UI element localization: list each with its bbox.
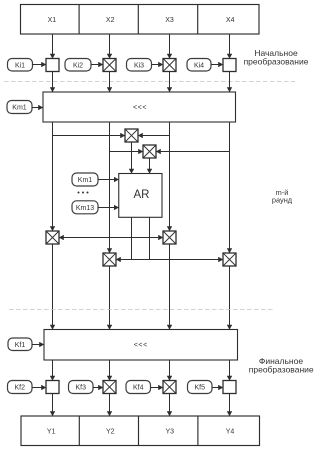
xor B [163, 231, 176, 244]
xor U2 [143, 145, 156, 158]
key Kf1 (final rotate) [8, 338, 32, 351]
key Km1 (round rotate) [7, 101, 32, 114]
key Ki3 [127, 59, 152, 72]
key Ki4 [187, 59, 211, 72]
wire Ki1 to S1 [33, 64, 47, 66]
svg-text:Kf1: Kf1 [15, 342, 26, 349]
svg-text:Kf3: Kf3 [75, 385, 86, 392]
svg-text:преобразование: преобразование [244, 57, 309, 67]
svg-text:Kf5: Kf5 [194, 385, 205, 392]
svg-text:X3: X3 [165, 17, 174, 24]
xor M6 [103, 381, 116, 394]
wire S5 to output register [52, 394, 54, 417]
wire xor A to final rotate box [52, 244, 54, 330]
wire column 1 branch to xor U1 left [53, 135, 126, 137]
wire AR output 2 [149, 217, 151, 259]
wire column 1 to xor A [52, 122, 54, 231]
svg-text:преобразование: преобразование [249, 364, 314, 374]
svg-text:Ki4: Ki4 [194, 62, 204, 69]
wire final rotate box to adder S5 [52, 360, 54, 381]
svg-text:X2: X2 [106, 17, 115, 24]
svg-text:Ki3: Ki3 [134, 62, 144, 69]
wire final rotate box to adder S8 [229, 360, 231, 381]
key Kf3 [69, 381, 94, 394]
svg-text:Y3: Y3 [166, 428, 175, 435]
wire M7 to output register [169, 394, 171, 417]
key Kf5 [188, 381, 213, 394]
input register X1-X4 [21, 5, 260, 35]
wire X3 to xor M3 [169, 34, 171, 59]
output register Y1-Y4 [21, 416, 260, 446]
wire Km13 to AR [98, 207, 119, 209]
dashed separator (start of round section) [4, 81, 295, 83]
wire U2 to AR [149, 158, 151, 174]
svg-text:Km1: Km1 [12, 105, 27, 112]
adder S8 [223, 381, 236, 394]
key Kf4 [126, 381, 151, 394]
wire Ki2 to M2 [91, 64, 103, 66]
xor U1 [125, 129, 138, 142]
xor D [223, 253, 236, 266]
wire Ki3 to M3 [152, 64, 164, 66]
wire final rotate box to xor M6 [109, 360, 111, 381]
svg-text:X4: X4 [226, 17, 235, 24]
AR round function box [119, 174, 162, 218]
wire M3 to round rotate box [169, 72, 171, 93]
wire Kf1 to final rotate box [32, 344, 44, 346]
wire Km1 to round rotate box [32, 107, 43, 109]
svg-text:Ki1: Ki1 [15, 62, 25, 69]
adder S1 [46, 59, 59, 72]
dashed separator (end of round section) [9, 309, 275, 311]
xor M3 [163, 59, 176, 72]
svg-text:Kf4: Kf4 [133, 385, 144, 392]
wire column 2 branch to xor U2 left [110, 151, 144, 153]
adder S4 [223, 59, 236, 72]
key Kf2 [8, 381, 33, 394]
wire column 3 to xor B [169, 122, 171, 231]
wire S4 to round rotate box [229, 72, 231, 93]
wire X2 to xor M2 [109, 34, 111, 59]
rotate box <<< (final) [44, 330, 238, 361]
svg-text:Y4: Y4 [226, 428, 235, 435]
wire M2 to round rotate box [109, 72, 111, 93]
svg-text:<<<: <<< [134, 342, 148, 349]
svg-text:Ki2: Ki2 [73, 62, 83, 69]
wire column 2 to xor C [109, 122, 111, 253]
xor A [46, 231, 59, 244]
svg-text:Y2: Y2 [106, 428, 115, 435]
wire M6 to output register [109, 394, 111, 417]
wire final rotate box to xor M7 [169, 360, 171, 381]
wire Kf4 to M7 [151, 387, 164, 389]
wire Kf2 to S5 [32, 387, 46, 389]
key Ki1 [8, 59, 33, 72]
wire W2 between xor C and xor D [116, 259, 223, 261]
key Km13 (AR input) [72, 201, 98, 214]
svg-text:Km13: Km13 [76, 205, 94, 212]
svg-text:Km1: Km1 [78, 177, 93, 184]
rotate box <<< (round) [43, 92, 236, 122]
wire X1 to adder S1 [52, 34, 54, 59]
xor C [103, 253, 116, 266]
wire U1 to AR [131, 142, 133, 174]
svg-text:AR: AR [134, 189, 150, 201]
wire column 3 branch to xor U1 right [138, 135, 170, 137]
annotation: final transformation [249, 356, 314, 374]
annotation: m-th round [272, 188, 293, 205]
xor M7 [163, 381, 176, 394]
ellipsis dots between Km1 and Km13 [78, 192, 89, 194]
wire column 4 to xor D [229, 122, 231, 253]
svg-text:<<<: <<< [133, 105, 147, 112]
wire S8 to output register [229, 394, 231, 417]
svg-text:Kf2: Kf2 [14, 385, 25, 392]
svg-text:X1: X1 [48, 17, 57, 24]
wire column 4 branch to xor U2 right [156, 151, 230, 153]
wire xor B to final rotate box [169, 244, 171, 330]
wire Km1 to AR [98, 179, 119, 181]
wire xor C to final rotate box [109, 266, 111, 330]
wire AR output 1 [131, 217, 133, 259]
svg-text:Y1: Y1 [47, 428, 56, 435]
key Ki2 [65, 59, 91, 72]
wire S1 to round rotate box [52, 72, 54, 93]
wire W1 between xor A and xor B [59, 237, 163, 239]
wire Kf5 to S8 [212, 387, 223, 389]
adder S5 [46, 381, 59, 394]
xor M2 [103, 59, 116, 72]
wire X4 to adder S4 [229, 34, 231, 59]
key Km1 (AR input) [72, 173, 98, 186]
svg-text:раунд: раунд [272, 196, 293, 205]
wire Kf3 to M6 [93, 387, 103, 389]
annotation: initial transformation [244, 48, 309, 67]
wire xor D to final rotate box [229, 266, 231, 330]
wire Ki4 to S4 [211, 64, 223, 66]
